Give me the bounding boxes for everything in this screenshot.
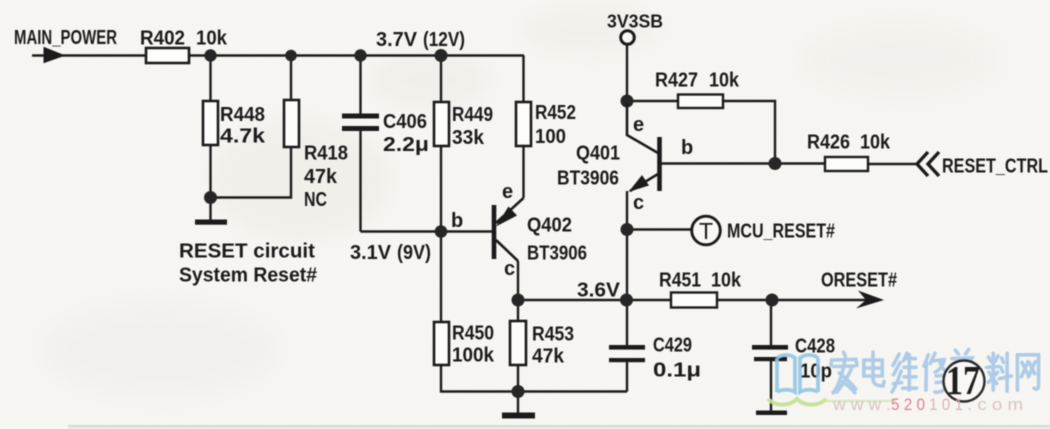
wire: R450 top xyxy=(440,232,442,323)
junction R448/R418 bottom xyxy=(204,191,217,204)
wire: R449 top xyxy=(440,56,442,103)
svg-text:b: b xyxy=(451,210,463,232)
wire: MCU_RESET tap xyxy=(627,228,692,230)
junction at base rail xyxy=(435,225,448,238)
svg-text:R451: R451 xyxy=(659,270,701,292)
svg-text:10k: 10k xyxy=(711,270,742,292)
junction at R402/R448 xyxy=(204,49,216,61)
wire: R449 bottom xyxy=(440,146,442,232)
svg-text:Q401: Q401 xyxy=(576,143,620,165)
wire: corner down to R452 xyxy=(522,56,524,103)
wire: collector node to 3.6V rail xyxy=(626,229,628,300)
watermark www.520101.com xyxy=(832,395,1023,414)
junction at R418 top xyxy=(285,50,297,62)
svg-text:Q402: Q402 xyxy=(527,215,572,237)
svg-text:NC: NC xyxy=(304,189,327,211)
wire: R451 right xyxy=(717,299,772,301)
svg-text:e: e xyxy=(502,181,513,203)
svg-text:47k: 47k xyxy=(532,346,565,368)
ground left xyxy=(195,220,227,225)
wire: C406 top xyxy=(359,56,361,116)
wire: MAIN_POWER input xyxy=(32,54,146,56)
ground center xyxy=(502,413,535,419)
wire: R427 right down to base xyxy=(723,101,775,163)
resistor R453 xyxy=(510,321,526,365)
capacitor C429 xyxy=(609,345,645,362)
svg-text:4.7k: 4.7k xyxy=(220,126,266,148)
svg-text:3.6V: 3.6V xyxy=(577,280,621,302)
svg-text:2.2μ: 2.2μ xyxy=(383,134,429,156)
wire: C406 bottom xyxy=(359,131,361,232)
wire: ORESET out xyxy=(772,299,869,301)
svg-text:System Reset#: System Reset# xyxy=(179,265,317,287)
svg-text:33k: 33k xyxy=(452,127,485,149)
wire: top rail 3.7V xyxy=(189,54,524,56)
wire: R452 bottom to Q402 emitter xyxy=(522,146,524,198)
svg-text:BT3906: BT3906 xyxy=(527,243,587,265)
wire: R453 top xyxy=(517,300,519,321)
ground right xyxy=(756,411,787,416)
wire: R451 left xyxy=(627,299,672,301)
svg-text:BT3906: BT3906 xyxy=(557,168,619,190)
wire: R427 left xyxy=(627,100,678,102)
test point T xyxy=(692,216,721,245)
svg-text:(9V): (9V) xyxy=(397,242,431,264)
svg-text:3V3SB: 3V3SB xyxy=(607,12,663,32)
wire: Q401 collector down xyxy=(626,191,628,229)
wire: R448 top xyxy=(209,56,211,102)
capacitor C406 xyxy=(342,114,379,132)
svg-text:T: T xyxy=(699,218,713,244)
svg-text:100: 100 xyxy=(535,126,566,148)
svg-text:c: c xyxy=(633,192,644,214)
svg-text:10k: 10k xyxy=(196,28,228,50)
wire: C428 top xyxy=(770,300,772,346)
svg-text:3.1V: 3.1V xyxy=(350,242,392,264)
svg-text:MCU_RESET#: MCU_RESET# xyxy=(727,221,835,243)
junction 3.6V node xyxy=(512,294,525,307)
wire: 3.6V rail xyxy=(518,299,627,301)
svg-text:R426: R426 xyxy=(807,132,850,154)
wire: center ground stub xyxy=(517,392,519,414)
svg-text:C406: C406 xyxy=(383,111,427,133)
svg-text:R449: R449 xyxy=(452,104,493,126)
junction Q401 base node xyxy=(769,157,782,170)
junction at C406 top xyxy=(354,49,366,61)
svg-text:C429: C429 xyxy=(653,335,692,357)
svg-text:R418: R418 xyxy=(304,143,348,165)
svg-text:RESET circuit: RESET circuit xyxy=(179,241,315,263)
resistor R448 xyxy=(203,101,218,145)
port RESET_CTRL chevrons xyxy=(917,152,939,176)
wire: 3V3SB drop xyxy=(626,44,628,101)
resistor R426 xyxy=(825,157,868,171)
input arrow MAIN_POWER xyxy=(44,48,64,63)
svg-text:47k: 47k xyxy=(304,166,338,188)
junction at C428 xyxy=(766,294,779,307)
ORESET# output arrow xyxy=(856,291,884,309)
svg-text:e: e xyxy=(633,114,644,136)
svg-text:10p: 10p xyxy=(800,361,832,383)
svg-text:ORESET#: ORESET# xyxy=(821,270,897,292)
junction Q401 emitter node xyxy=(621,95,634,108)
svg-text:R453: R453 xyxy=(532,324,574,346)
wire: C429 bottom xyxy=(626,362,628,392)
wire: R418 bottom to junction xyxy=(211,147,292,198)
transistor Q402 xyxy=(494,198,524,261)
terminal 3V3SB xyxy=(621,31,635,45)
svg-text:1 0 1: 1 0 1 xyxy=(929,395,963,414)
svg-text:c: c xyxy=(504,258,515,280)
svg-text:10k: 10k xyxy=(709,70,740,92)
junction at R449 top xyxy=(435,49,448,62)
svg-text:R448: R448 xyxy=(220,104,265,126)
svg-text:3.7V: 3.7V xyxy=(376,29,418,51)
svg-text:. c o m: . c o m xyxy=(967,395,1023,414)
wire: R448 bottom xyxy=(209,145,211,221)
junction bottom rail xyxy=(512,385,525,398)
svg-text:100k: 100k xyxy=(452,345,495,367)
resistor R418 xyxy=(284,100,299,147)
svg-text:R427: R427 xyxy=(655,70,698,92)
wire: Q401 base rail xyxy=(661,162,825,164)
svg-text:w w w .: w w w . xyxy=(832,395,891,414)
junction collector/MCU node xyxy=(621,223,634,236)
resistor R402 xyxy=(146,48,189,63)
page number 17 xyxy=(944,357,985,403)
svg-text:MAIN_POWER: MAIN_POWER xyxy=(14,27,117,49)
wire: C428 bottom xyxy=(770,361,772,412)
wire: R450 bottom to rail xyxy=(441,365,518,392)
svg-text:5 2 0: 5 2 0 xyxy=(891,395,925,414)
wire: C429 top xyxy=(626,300,628,346)
watermark book icon xyxy=(777,355,818,392)
resistor R451 xyxy=(671,293,717,308)
resistor R452 xyxy=(516,102,531,146)
wire: R426 right xyxy=(868,163,916,165)
svg-text:RESET_CTRL: RESET_CTRL xyxy=(942,156,1048,178)
wire: Q402 collector down xyxy=(517,261,519,300)
resistor R449 xyxy=(434,102,449,146)
svg-text:R402: R402 xyxy=(140,28,185,50)
wire: R453 bottom xyxy=(517,365,519,392)
svg-text:b: b xyxy=(681,137,693,159)
junction 3.6V at C429 xyxy=(620,294,633,307)
watermark book ribbon xyxy=(768,399,826,405)
wire: base rail 3.1V xyxy=(361,230,493,232)
svg-text:R450: R450 xyxy=(452,323,494,345)
wire: R418 top xyxy=(290,56,292,101)
svg-text:0.1μ: 0.1μ xyxy=(653,360,701,382)
svg-text:10k: 10k xyxy=(860,132,891,154)
capacitor C428 xyxy=(752,345,788,361)
wire: bottom rail to C429 xyxy=(518,390,627,392)
transistor Q401 xyxy=(627,103,660,192)
watermark text 家电维修资料网 xyxy=(831,349,1039,392)
resistor R427 xyxy=(678,95,723,109)
resistor R450 xyxy=(434,322,449,365)
svg-text:(12V): (12V) xyxy=(423,29,465,51)
svg-text:R452: R452 xyxy=(535,102,576,124)
